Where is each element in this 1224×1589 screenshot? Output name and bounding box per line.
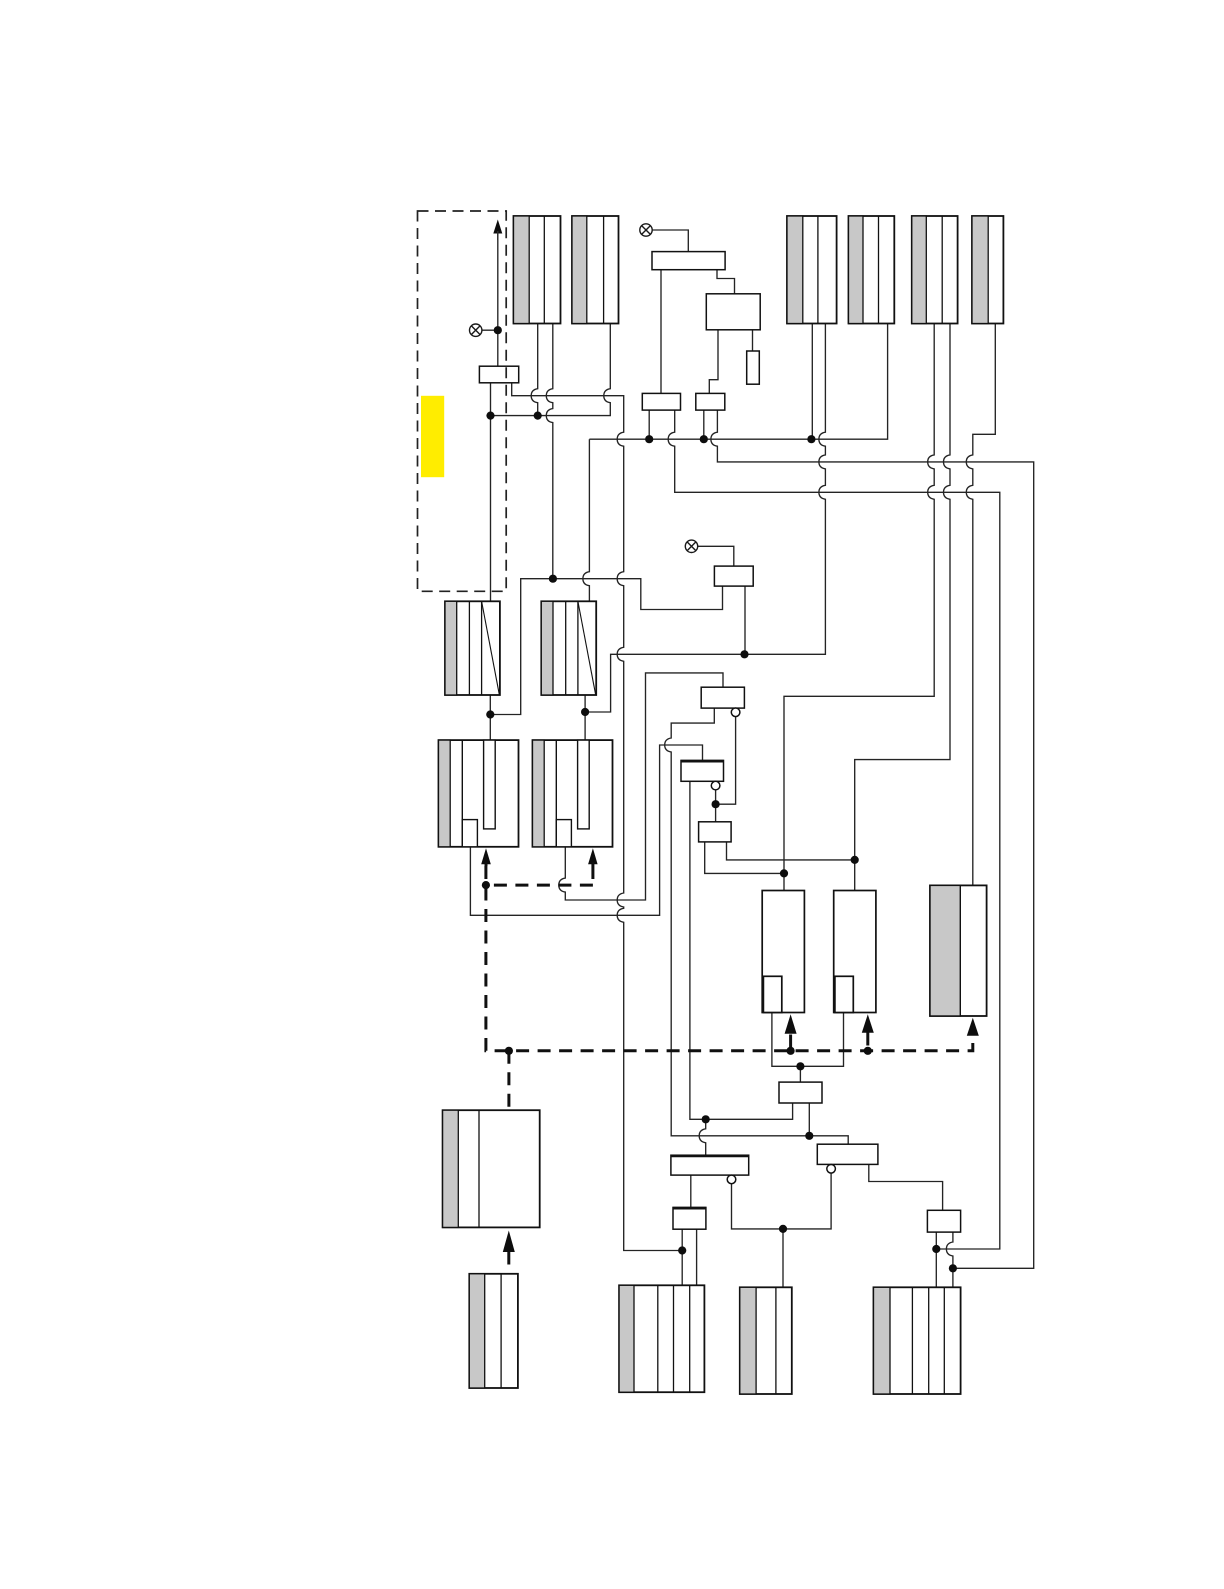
wire bus-439 — [589, 324, 887, 440]
wire Q-right to R-top — [869, 1164, 943, 1210]
arrow C-up — [481, 848, 491, 864]
arrow D-up — [588, 848, 598, 864]
wire CN1-left pin — [531, 324, 538, 416]
arrow D shaft — [591, 862, 594, 866]
junction box X — [642, 393, 680, 410]
wire T-left / bus415 / A-top — [490, 383, 492, 602]
dashed H2-arrow tail — [866, 1033, 869, 1051]
wire Y-right pin to resistor — [752, 330, 754, 351]
wire bus-578 (dot714 up to W-left pin) — [490, 579, 553, 715]
connector BS — [874, 1287, 961, 1394]
wire P-circle / Q-circle link — [732, 1173, 832, 1229]
dashed harness bus — [486, 866, 973, 1274]
wire X-left pin — [648, 410, 650, 439]
dashed branch to D-arrow — [591, 866, 594, 885]
relay connector B — [541, 601, 596, 695]
dashed enclosure box — [418, 211, 507, 591]
wire CN3-right pin / line-654 — [585, 324, 825, 713]
wire D-pin to E-top — [559, 673, 723, 900]
junction box W — [714, 566, 753, 586]
wire V-right pin to Y — [717, 270, 735, 294]
keyed connector C — [439, 740, 519, 847]
lamp symbol L1 — [470, 324, 482, 336]
junction box I — [779, 1082, 822, 1103]
dashed H-arrow tail — [789, 1035, 792, 1051]
arrow C shaft — [485, 862, 488, 866]
wire X-right pin / line-492 — [668, 410, 1000, 1249]
wire arrow-to-T — [497, 232, 499, 366]
junction box P — [671, 1155, 749, 1175]
junction box Q — [817, 1144, 878, 1164]
highlight marker (yellow) — [421, 396, 444, 477]
wire T-right / long vertical 623.7 — [512, 383, 683, 1251]
junction box Y — [706, 294, 760, 330]
wire E-circle link — [716, 717, 736, 805]
wire Z-left pin — [703, 410, 705, 439]
lamp symbol L3 — [685, 540, 697, 552]
wire F-left / line-1119 / I-left — [690, 781, 793, 1119]
junction box T — [479, 366, 518, 383]
relay box H2 — [834, 891, 876, 1013]
wire V-left pin to X — [660, 270, 662, 394]
wire CN5-left / H-top — [784, 324, 934, 891]
arrow top — [493, 220, 502, 234]
junction dots — [482, 326, 957, 1272]
module box J — [930, 885, 987, 1016]
wire P-left to M-top — [690, 1175, 692, 1207]
wire Y-left pin to Z — [709, 330, 718, 394]
junction box R — [927, 1210, 960, 1232]
wire A-bottom to C-top — [489, 695, 491, 740]
relay connector A — [445, 601, 500, 695]
wire dot1066 to I-top — [799, 1066, 801, 1082]
wire lamp2 to V — [652, 230, 688, 252]
connector CN4 — [849, 216, 895, 324]
connector BL — [619, 1285, 704, 1392]
wire M-left pin — [681, 1229, 683, 1285]
wire G-right pin — [727, 842, 855, 860]
wire dot1119 to P-top — [699, 1119, 706, 1155]
wire M-right pin — [696, 1229, 698, 1285]
connector L — [469, 1274, 518, 1388]
wire H-left / H2-left link — [772, 1013, 844, 1067]
wire R-left pin — [935, 1232, 937, 1287]
dashed branch to box K — [507, 1051, 510, 1110]
connector CN1 — [514, 216, 561, 324]
wire lamp1 link — [482, 329, 498, 331]
arrow top shaft — [497, 231, 499, 240]
arrow K-up — [503, 1231, 515, 1253]
junction box V — [652, 252, 725, 270]
arrow H-up — [785, 1014, 797, 1034]
connector CN3 — [787, 216, 837, 324]
wire CN6 / J-top — [966, 324, 995, 886]
junction box res — [747, 351, 760, 384]
wire CN1-right pin — [546, 324, 553, 579]
relay box H — [762, 891, 804, 1013]
wire CN5-right / H2-top — [855, 324, 950, 891]
wire C-pin to F-top — [470, 745, 702, 915]
wire E-left / line-1135 / Q-top — [665, 708, 849, 1144]
connector CN2 — [572, 216, 619, 324]
wire W-right pin — [744, 586, 746, 654]
wire lamp3 to W — [698, 546, 734, 566]
wire Z-right pin / line-462 — [711, 410, 1034, 1268]
junction box F — [681, 760, 724, 781]
arrow J-up — [967, 1018, 979, 1036]
connector CN6 — [972, 216, 1003, 324]
junction box Z — [696, 393, 725, 410]
keyed connector D — [533, 740, 613, 847]
wire G-left pin — [705, 842, 784, 874]
wire bus-415 — [491, 324, 611, 416]
junction box E — [701, 687, 744, 708]
dashed K to L link — [507, 1252, 510, 1274]
junction box M — [673, 1207, 706, 1229]
arrow H2-up — [862, 1014, 874, 1033]
wire CN3-left pin — [811, 324, 813, 440]
wire R-right pin — [946, 1232, 953, 1287]
connector BM — [740, 1287, 792, 1394]
wire F-circle to G-top — [715, 790, 717, 822]
wire dot1228 to BM-top — [782, 1229, 784, 1287]
wire B-bottom to D-top — [584, 695, 586, 740]
wire bus-439 left end down to B-top — [583, 439, 590, 601]
contact circles — [711, 708, 835, 1184]
junction box G — [699, 822, 732, 842]
lamp symbol L2 — [640, 224, 652, 236]
wire I-right pin — [808, 1103, 810, 1136]
connector CN5 — [912, 216, 958, 324]
module box K — [443, 1110, 540, 1227]
